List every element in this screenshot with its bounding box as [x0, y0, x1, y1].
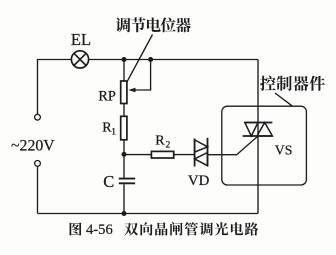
terminal lower: [35, 161, 41, 167]
caption 图: [70, 222, 82, 235]
diac VD: [195, 138, 208, 167]
node dot top right: [148, 57, 153, 62]
wire: capacitor to bottom rail: [123, 184, 125, 213]
label R1: [102, 121, 116, 138]
terminal upper: [35, 114, 41, 120]
svg-text:2: 2: [166, 140, 171, 150]
wire: VD to gate: [208, 136, 258, 155]
wire: bottom rail: [38, 213, 259, 215]
wire: RP to R1: [123, 104, 125, 117]
wire: top rail left segment: [38, 60, 71, 115]
node A dot: [122, 152, 127, 157]
resistor R2 body: [151, 151, 173, 158]
label 控制器件: [260, 76, 325, 91]
node dot bottom: [122, 211, 127, 216]
node dot top left: [122, 57, 127, 62]
triac VS: [243, 123, 273, 137]
svg-text:R: R: [155, 133, 165, 148]
svg-text:VS: VS: [275, 143, 293, 158]
wire: right rail: [257, 60, 259, 214]
svg-text:C: C: [103, 172, 114, 191]
caption 双向晶闸管调光电路: [124, 222, 258, 235]
label 调节电位器: [116, 17, 191, 32]
control device box: [222, 106, 307, 185]
leader line to box: [275, 93, 292, 106]
wire: node A to capacitor: [123, 154, 125, 177]
label R2: [155, 133, 170, 150]
svg-text:VD: VD: [188, 173, 210, 189]
svg-text:EL: EL: [71, 30, 91, 49]
svg-text:4-56: 4-56: [86, 222, 113, 238]
svg-text:RP: RP: [98, 89, 115, 105]
wire: left rail lower: [37, 167, 39, 214]
RP wiper arrow: [128, 60, 150, 93]
wire: top rail to RP: [123, 60, 125, 82]
resistor R1 body: [121, 116, 127, 140]
svg-text:1: 1: [111, 128, 116, 138]
wire: R2 to VD: [174, 154, 195, 156]
capacitor C: [119, 179, 135, 184]
leader line to RP wiper: [127, 35, 153, 82]
svg-text:~220V: ~220V: [11, 137, 55, 154]
lamp EL: [71, 51, 88, 68]
wire: top rail right segment: [89, 59, 258, 61]
wire: R1 to node A: [124, 140, 151, 155]
potentiometer RP body: [121, 81, 127, 104]
